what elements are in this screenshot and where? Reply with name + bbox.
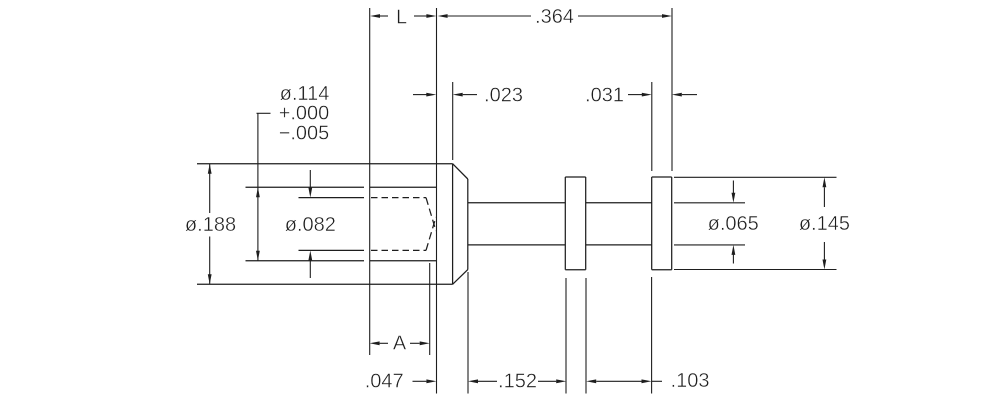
svg-text:ø.065: ø.065 [708,213,759,235]
svg-text:.152: .152 [498,370,537,392]
svg-text:ø.145: ø.145 [799,213,850,235]
svg-text:ø.082: ø.082 [285,214,336,236]
svg-text:−.005: −.005 [279,123,330,145]
svg-text:.364: .364 [535,6,574,28]
svg-text:.031: .031 [585,85,624,107]
svg-text:.023: .023 [484,85,523,107]
svg-text:.047: .047 [365,370,404,392]
svg-text:+.000: +.000 [279,103,330,125]
svg-text:L: L [396,7,407,29]
svg-text:.103: .103 [671,370,710,392]
svg-text:ø.188: ø.188 [185,214,236,236]
svg-text:A: A [393,333,407,355]
